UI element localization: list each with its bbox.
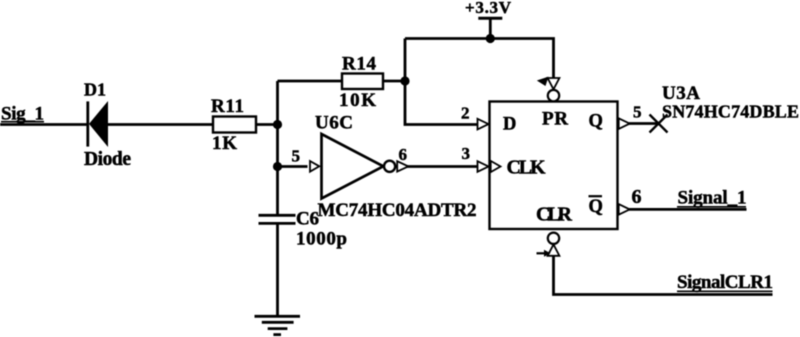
svg-text:Diode: Diode xyxy=(84,149,131,170)
svg-text:6: 6 xyxy=(632,186,642,208)
svg-text:U3A: U3A xyxy=(662,83,700,104)
svg-text:R11: R11 xyxy=(211,96,244,117)
svg-text:5: 5 xyxy=(633,103,642,122)
svg-text:+3.3V: +3.3V xyxy=(465,0,512,17)
svg-text:D: D xyxy=(503,115,516,135)
svg-text:Q: Q xyxy=(589,197,603,217)
svg-text:6: 6 xyxy=(399,145,408,164)
svg-text:MC74HC04ADTR2: MC74HC04ADTR2 xyxy=(318,200,477,221)
svg-text:D1: D1 xyxy=(84,80,106,100)
svg-text:1000p: 1000p xyxy=(296,229,347,250)
svg-text:1K: 1K xyxy=(212,133,237,154)
svg-text:SignalCLR1: SignalCLR1 xyxy=(677,272,773,293)
svg-text:2: 2 xyxy=(461,104,470,123)
svg-text:C6: C6 xyxy=(296,209,319,230)
svg-text:3: 3 xyxy=(462,144,471,163)
svg-text:Sig_1: Sig_1 xyxy=(1,103,44,124)
svg-text:SN74HC74DBLE: SN74HC74DBLE xyxy=(662,102,799,122)
svg-text:PR: PR xyxy=(542,109,568,130)
svg-text:CLR: CLR xyxy=(536,204,573,226)
svg-text:10K: 10K xyxy=(339,90,376,111)
svg-text:R14: R14 xyxy=(342,54,377,75)
svg-text:Signal_1: Signal_1 xyxy=(678,187,747,208)
svg-text:5: 5 xyxy=(292,147,301,166)
svg-text:Q: Q xyxy=(589,111,603,131)
svg-text:CLK: CLK xyxy=(507,156,546,178)
svg-text:U6C: U6C xyxy=(315,113,353,134)
